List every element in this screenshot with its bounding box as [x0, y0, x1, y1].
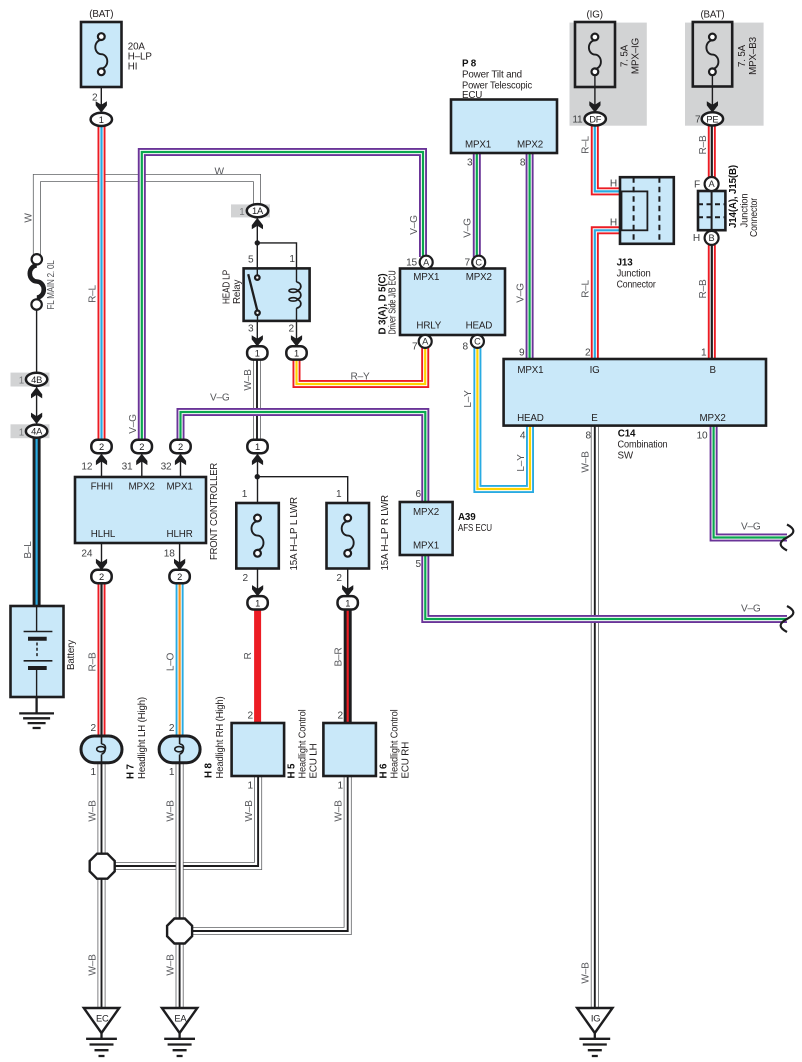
wire W-B H8 to ground EA [179, 762, 181, 1009]
wire R-B J14 B to C14 B [711, 245, 713, 360]
ground IG [577, 1008, 612, 1056]
svg-text:W: W [215, 167, 225, 178]
wire V-G P8 MPX2 to C14 MPX1 [529, 152, 531, 360]
arrow into FC pin18 connector [174, 559, 185, 570]
svg-text:2: 2 [243, 573, 249, 584]
svg-text:2: 2 [99, 572, 104, 582]
svg-text:R–Y: R–Y [351, 372, 370, 383]
arrow into H6 branch connector [342, 585, 353, 596]
svg-text:9: 9 [519, 347, 525, 358]
junction connector J13 [620, 177, 674, 244]
headlight H7 bulb [81, 736, 122, 763]
arrow into connector 1A [252, 218, 263, 229]
svg-text:PE: PE [706, 114, 718, 124]
connector oval relay pin2 [286, 346, 306, 359]
wire R fuse to H5 [254, 608, 261, 725]
connector circle J/B pin15 A [420, 256, 433, 269]
svg-text:1: 1 [255, 348, 260, 358]
arrow into FC pin12 connector [96, 454, 107, 465]
pin line FC pin 24 [101, 543, 103, 570]
connector oval FC pin32 [170, 440, 190, 453]
svg-text:V–G: V–G [409, 215, 420, 235]
connector oval 4B [26, 373, 47, 386]
svg-text:3: 3 [467, 158, 473, 169]
wire 4B to 4A [36, 387, 38, 425]
wire B-L 4A to battery [36, 437, 38, 607]
svg-text:FL MAIN 2. 0L: FL MAIN 2. 0L [46, 260, 57, 310]
svg-text:1: 1 [255, 442, 260, 452]
svg-text:Connector: Connector [749, 197, 760, 237]
svg-text:32: 32 [161, 462, 172, 473]
pin line fuse 15A R pin 2 [347, 553, 349, 597]
svg-text:3: 3 [248, 324, 254, 335]
svg-text:L–Y: L–Y [463, 390, 474, 408]
ECU P8 Power Tilt and Power Telescopic [451, 100, 557, 154]
svg-text:1: 1 [19, 376, 24, 387]
svg-text:Power Tilt and: Power Tilt and [462, 70, 522, 81]
svg-text:J14(A), J15(B): J14(A), J15(B) [728, 165, 739, 228]
wire R-L J13 to C14 IG [595, 230, 621, 359]
svg-text:1: 1 [169, 767, 175, 778]
wire L-Y J/B HEAD to C14 HEAD [477, 346, 530, 489]
svg-text:SW: SW [618, 450, 634, 461]
pin line relay pin 3 [256, 321, 258, 347]
battery ground [19, 697, 54, 728]
svg-text:B–L: B–L [23, 541, 34, 559]
svg-text:H: H [610, 218, 617, 229]
arrow into connector 4B [31, 387, 42, 398]
svg-text:W–B: W–B [581, 451, 592, 473]
svg-text:1A: 1A [252, 206, 264, 216]
svg-text:2: 2 [92, 93, 98, 104]
svg-text:IG: IG [591, 1014, 600, 1024]
svg-text:1: 1 [294, 348, 299, 358]
gray band connector 4A [11, 424, 50, 438]
svg-text:1: 1 [338, 781, 344, 792]
svg-text:7. 5A: 7. 5A [737, 44, 748, 67]
svg-text:7: 7 [465, 257, 471, 268]
connector oval fuse15L pin2 [247, 596, 267, 609]
pin line fuse 20A pin 2 [100, 76, 102, 114]
svg-text:HLHL: HLHL [91, 529, 116, 540]
svg-text:ECU LH: ECU LH [309, 743, 320, 778]
battery [11, 606, 64, 697]
octagon junction EC [90, 854, 115, 879]
fuse 15A H-LP R LWR [327, 503, 370, 569]
svg-text:8: 8 [463, 342, 469, 353]
connector circle J/B pin7 C [472, 256, 485, 269]
svg-text:H: H [610, 179, 617, 190]
headlight control ECU H5 [232, 723, 285, 776]
wire R-B fuse MPX-B3 to J14 A [711, 124, 713, 179]
wire V-G FC MPX2 to J/B MPX1 [142, 152, 423, 441]
octagon junction EA [167, 919, 192, 944]
svg-text:1: 1 [701, 347, 707, 358]
ground EC [84, 1008, 119, 1056]
svg-text:(IG): (IG) [587, 10, 603, 21]
svg-text:H 6: H 6 [379, 763, 390, 778]
svg-text:24: 24 [81, 549, 92, 560]
gray band connector 1A [231, 204, 270, 217]
svg-text:2: 2 [336, 573, 342, 584]
svg-text:MPX1: MPX1 [167, 481, 193, 492]
arrow into FC pin31 connector [136, 454, 147, 465]
svg-text:W–B: W–B [244, 800, 255, 822]
wire R-Y relay pin2 to J/B HRLY [297, 348, 426, 384]
combination switch C14 [504, 359, 766, 426]
svg-text:V–G: V–G [515, 283, 526, 303]
pin line FC pin 18 [179, 543, 181, 570]
svg-text:F: F [694, 179, 700, 190]
svg-text:15: 15 [406, 257, 417, 268]
wire R-L fuse H-LP HI to FHHI [101, 124, 103, 441]
arrow into connector 1 (20A fuse) [96, 101, 107, 112]
pin line FC pin 32 [180, 453, 182, 477]
svg-text:FRONT CONTROLLER: FRONT CONTROLLER [209, 463, 220, 560]
arrow into relay pin3 connector [252, 335, 263, 346]
svg-text:EA: EA [174, 1014, 187, 1024]
svg-text:FHHI: FHHI [91, 481, 113, 492]
wire branch to 15A fuse R [257, 477, 347, 516]
svg-text:R–B: R–B [698, 135, 709, 154]
svg-text:MPX1: MPX1 [413, 540, 439, 551]
svg-text:J13: J13 [617, 258, 634, 269]
svg-text:R–L: R–L [581, 135, 592, 153]
svg-text:E: E [591, 413, 598, 424]
svg-text:7: 7 [695, 114, 701, 125]
svg-text:1: 1 [345, 598, 350, 608]
svg-text:R–L: R–L [581, 279, 592, 297]
svg-text:W–B: W–B [165, 954, 176, 976]
wire branch to relay pin 1 [257, 243, 296, 269]
svg-text:A39: A39 [458, 512, 476, 523]
svg-text:7. 5A: 7. 5A [620, 44, 631, 67]
wire W-B C14 pin E to ground IG [594, 425, 596, 1009]
svg-text:11: 11 [572, 114, 583, 125]
ECU D3(A) D5(C) Driver Side J/B [400, 269, 505, 336]
svg-text:1: 1 [99, 115, 104, 125]
connector oval FC pin31 [132, 440, 152, 453]
connector oval FC pin12 [91, 440, 111, 453]
svg-text:W–B: W–B [243, 369, 254, 391]
fuse 15A H-LP L LWR [236, 503, 278, 569]
wire R-L fuse MPX-IG to J13 [595, 124, 621, 191]
svg-text:2: 2 [338, 711, 344, 722]
svg-text:Headlight Control: Headlight Control [298, 710, 309, 779]
svg-text:1: 1 [242, 489, 248, 500]
svg-text:A: A [422, 336, 429, 346]
wire W-B H7 to ground EC [101, 762, 103, 1009]
svg-text:2: 2 [248, 711, 254, 722]
pin line fuse MPX-IG pin 11 [594, 76, 596, 114]
svg-text:1: 1 [19, 427, 24, 438]
svg-text:R–B: R–B [698, 279, 709, 298]
svg-text:L–O: L–O [165, 652, 176, 671]
svg-text:B: B [709, 233, 715, 243]
svg-text:P 8: P 8 [462, 59, 477, 70]
svg-text:H: H [693, 233, 700, 244]
arrow into FC pin24 connector [96, 559, 107, 570]
svg-text:1: 1 [91, 767, 97, 778]
fuse 7.5A MPX-IG [575, 22, 615, 87]
pin line relay pin 2 [296, 321, 298, 347]
connector oval fuse15R pin2 [338, 596, 358, 609]
svg-text:Junction: Junction [617, 269, 651, 280]
svg-text:R: R [243, 652, 254, 659]
svg-text:Relay: Relay [232, 279, 243, 304]
connector oval relay pin3 [247, 346, 267, 359]
connector oval relay branch [247, 440, 267, 453]
svg-text:C: C [474, 336, 481, 346]
svg-text:Battery: Battery [66, 640, 77, 670]
svg-text:MPX1: MPX1 [517, 365, 543, 376]
junction dot 15A fuse branch [255, 474, 260, 479]
svg-text:MPX–B3: MPX–B3 [748, 36, 759, 74]
svg-text:2: 2 [139, 442, 144, 452]
svg-text:12: 12 [81, 462, 92, 473]
svg-text:2: 2 [178, 442, 183, 452]
svg-text:MPX2: MPX2 [700, 413, 726, 424]
svg-text:MPX1: MPX1 [465, 139, 491, 150]
wire W-B relay pin3 to connector [256, 358, 258, 441]
arrow into H5 branch connector [252, 585, 263, 596]
pin line FC pin 12 [101, 453, 103, 477]
svg-text:Headlight Control: Headlight Control [390, 710, 401, 779]
fuse 20A H-LP HI [81, 22, 122, 87]
wire V-G FC MPX1 to A39 MPX2 [181, 412, 426, 503]
svg-text:V–G: V–G [128, 414, 139, 434]
wire 1A to relay pin 5 [256, 218, 258, 269]
connector oval 1A [247, 204, 268, 217]
svg-text:2: 2 [585, 347, 591, 358]
svg-text:HLHR: HLHR [167, 529, 193, 540]
wire R-B FC HLHL to H7 [101, 582, 103, 738]
svg-text:W–B: W–B [334, 800, 345, 822]
svg-text:HEAD: HEAD [466, 321, 493, 332]
fusible link FL MAIN 2.0L [30, 254, 44, 310]
svg-text:Combination: Combination [618, 439, 668, 450]
svg-text:4A: 4A [31, 427, 43, 437]
svg-text:5: 5 [248, 255, 254, 266]
svg-text:V–G: V–G [210, 393, 230, 404]
svg-text:MPX2: MPX2 [413, 507, 439, 518]
svg-text:MPX2: MPX2 [466, 272, 492, 283]
connector oval 1 below 20A fuse [91, 113, 112, 126]
svg-text:8: 8 [586, 431, 592, 442]
svg-text:2: 2 [99, 442, 104, 452]
arrow into connector DF [589, 101, 600, 112]
svg-text:18: 18 [164, 549, 175, 560]
break symbol V-G right 2 [781, 606, 794, 632]
svg-text:Connector: Connector [617, 280, 657, 291]
svg-text:1: 1 [255, 598, 260, 608]
svg-text:H 8: H 8 [204, 763, 215, 778]
svg-text:W–B: W–B [165, 800, 176, 822]
svg-text:(BAT): (BAT) [700, 10, 724, 21]
svg-text:31: 31 [122, 462, 133, 473]
svg-text:W–B: W–B [581, 962, 592, 984]
pin line fuse 15A L pin 2 [257, 553, 259, 597]
svg-text:2: 2 [177, 572, 182, 582]
svg-text:1: 1 [289, 254, 295, 265]
svg-text:Headlight RH (High): Headlight RH (High) [215, 697, 226, 779]
gray panel fuse MPX-B3 [685, 23, 764, 126]
svg-text:15A H–LP L LWR: 15A H–LP L LWR [289, 497, 300, 570]
svg-text:W: W [24, 213, 35, 223]
break symbol V-G right 1 [781, 525, 794, 551]
svg-text:HRLY: HRLY [416, 321, 441, 332]
svg-text:ECU: ECU [462, 90, 482, 101]
svg-text:EC: EC [96, 1014, 109, 1024]
svg-text:W–B: W–B [87, 954, 98, 976]
svg-text:(BAT): (BAT) [89, 9, 113, 20]
svg-text:R–L: R–L [87, 284, 98, 302]
svg-text:DF: DF [589, 114, 602, 124]
pin line fuse MPX-B3 pin 7 [711, 76, 713, 114]
svg-text:A: A [709, 179, 716, 189]
svg-text:B–R: B–R [334, 648, 345, 667]
wire FL MAIN to 4B [36, 310, 38, 373]
svg-text:2: 2 [91, 723, 97, 734]
svg-text:MPX2: MPX2 [129, 481, 155, 492]
svg-text:4B: 4B [31, 375, 42, 385]
svg-text:4: 4 [520, 431, 526, 442]
svg-text:A: A [423, 258, 430, 268]
headlight control ECU H6 [323, 723, 376, 776]
svg-text:15A H–LP R LWR: 15A H–LP R LWR [380, 495, 391, 570]
junction connector J14(A) J15(B) [698, 177, 725, 245]
gray band connector 4B [11, 373, 50, 387]
svg-text:6: 6 [416, 489, 422, 500]
connector circle J/B pin8 C HEAD [471, 335, 484, 348]
svg-text:L–Y: L–Y [516, 454, 527, 472]
wire B-R fuse to H6 [347, 608, 349, 725]
gray panel fuse MPX-IG [570, 23, 647, 126]
svg-text:B: B [710, 365, 717, 376]
svg-text:10: 10 [697, 431, 708, 442]
wire to 15A fuse L [257, 453, 259, 516]
connector oval DF [585, 112, 606, 125]
junction dot relay supply [255, 240, 260, 245]
ground EA [162, 1008, 197, 1056]
arrow into connector PE [707, 101, 718, 112]
svg-text:HI: HI [128, 62, 138, 73]
pin line FC pin 31 [141, 453, 143, 477]
svg-text:AFS ECU: AFS ECU [458, 523, 492, 534]
svg-text:7: 7 [412, 342, 418, 353]
arrow into connector 4A [31, 413, 42, 424]
svg-text:C14: C14 [618, 428, 636, 439]
wire V-G P8 MPX1 to J/B MPX2 [476, 152, 478, 257]
headlight H8 bulb [159, 736, 200, 763]
svg-text:W–B: W–B [87, 800, 98, 822]
ECU A39 AFS [400, 502, 453, 555]
svg-text:HEAD: HEAD [517, 413, 544, 424]
wire V-G A39 MPX1 to break [425, 554, 787, 619]
connector oval FC pin18 [169, 570, 189, 583]
svg-text:ECU RH: ECU RH [401, 742, 412, 779]
svg-text:H 7: H 7 [126, 764, 137, 779]
front controller box [75, 477, 206, 543]
svg-text:R–B: R–B [87, 652, 98, 671]
wire L-O FC HLHR to H8 [179, 582, 181, 738]
svg-text:V–G: V–G [463, 218, 474, 238]
svg-text:2: 2 [169, 723, 175, 734]
svg-text:MPX1: MPX1 [413, 272, 439, 283]
connector circle J/B pin7 A HRLY [419, 335, 432, 348]
svg-text:2: 2 [289, 324, 295, 335]
svg-text:1: 1 [239, 207, 244, 218]
svg-text:1: 1 [336, 489, 342, 500]
wire W from FL MAIN to 1A [37, 178, 257, 256]
wire W-B H6 to octagon junction [193, 776, 348, 931]
connector oval PE [702, 112, 723, 125]
svg-text:H 5: H 5 [287, 763, 298, 778]
svg-text:1: 1 [248, 781, 254, 792]
svg-text:MPX–IG: MPX–IG [631, 38, 642, 74]
arrow into FC pin32 connector [175, 454, 186, 465]
connector oval FC pin24 [91, 570, 111, 583]
arrow into relay branch connector [252, 454, 263, 465]
svg-text:C: C [475, 258, 482, 268]
svg-text:V–G: V–G [741, 604, 761, 615]
svg-text:5: 5 [416, 559, 422, 570]
wire V-G C14 MPX2 to break [714, 425, 787, 538]
fuse 7.5A MPX-B3 [693, 22, 732, 87]
svg-text:HEAD LP: HEAD LP [222, 269, 233, 304]
svg-text:Headlight LH (High): Headlight LH (High) [137, 697, 148, 779]
arrow into relay pin2 connector [291, 335, 302, 346]
wire W-B H5 to octagon junction [115, 776, 258, 866]
svg-text:8: 8 [520, 158, 526, 169]
svg-text:IG: IG [590, 365, 600, 376]
relay HEAD LP [244, 268, 310, 321]
svg-text:Driver Side J/B ECU: Driver Side J/B ECU [388, 270, 399, 334]
svg-text:MPX2: MPX2 [517, 139, 543, 150]
connector oval 4A [26, 425, 47, 438]
svg-text:V–G: V–G [741, 522, 761, 533]
